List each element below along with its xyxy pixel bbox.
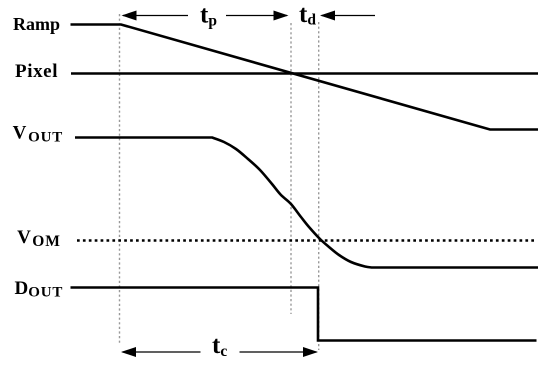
svg-text:Pixel: Pixel [15, 61, 58, 82]
tp dimension right arrow [226, 11, 289, 21]
tc dimension right arrow [240, 347, 319, 357]
DOUT waveform [71, 288, 537, 341]
VOM threshold dotted line [77, 239, 537, 242]
dashed timing line at ramp start (t0) [119, 14, 121, 345]
tc dimension left arrow [121, 347, 201, 357]
comparator output waveform VOUT [75, 138, 538, 268]
dashed timing line at ramp/pixel crossing [290, 23, 292, 314]
dashed timing line at comparator decision [318, 22, 320, 350]
tp dimension left arrow [122, 11, 189, 21]
svg-text:Ramp: Ramp [13, 14, 60, 34]
ramp waveform [71, 25, 539, 130]
td dimension right-side arrow [320, 11, 375, 21]
pixel waveform [71, 72, 538, 75]
